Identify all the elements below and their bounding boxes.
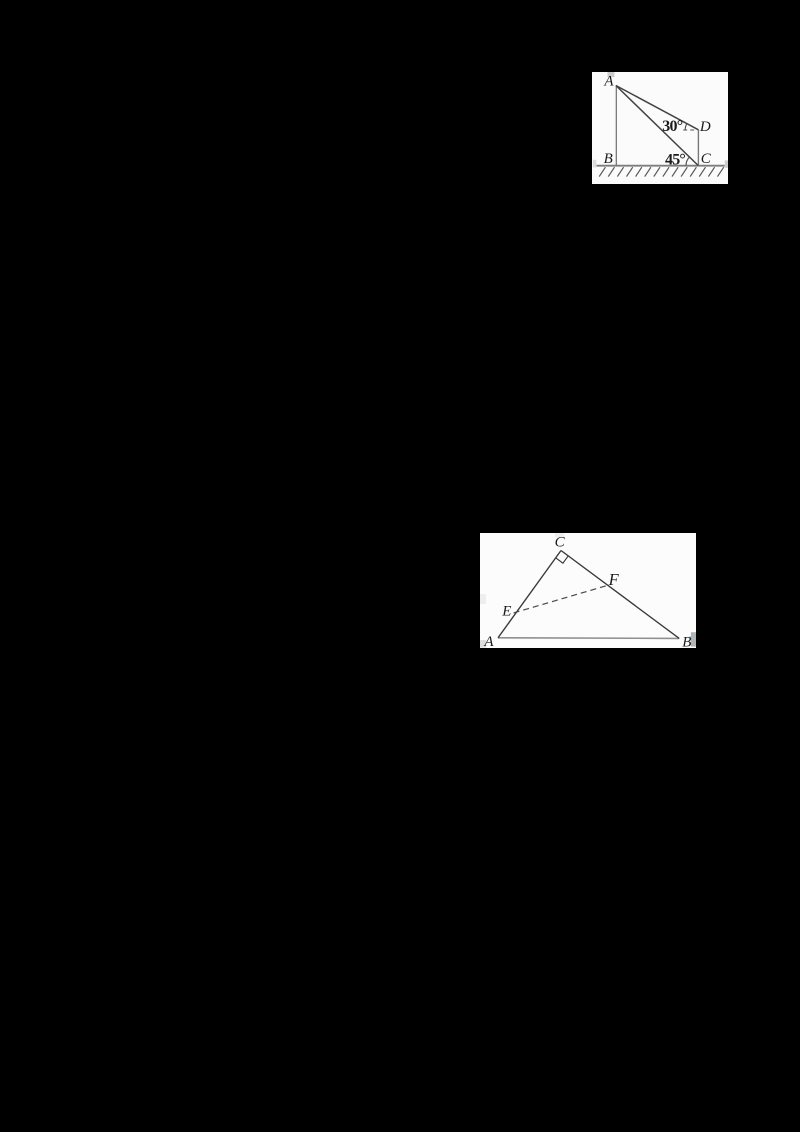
- svg-text:C: C: [555, 535, 566, 551]
- svg-text:C: C: [701, 151, 712, 167]
- svg-text:F: F: [608, 570, 620, 589]
- svg-text:A: A: [603, 73, 614, 89]
- svg-text:45°: 45°: [665, 152, 685, 169]
- svg-text:30°: 30°: [662, 118, 682, 135]
- svg-text:B: B: [682, 634, 691, 648]
- svg-text:A: A: [483, 634, 494, 648]
- svg-text:B: B: [604, 151, 613, 167]
- svg-text:E: E: [501, 604, 511, 620]
- svg-text:D: D: [699, 119, 711, 135]
